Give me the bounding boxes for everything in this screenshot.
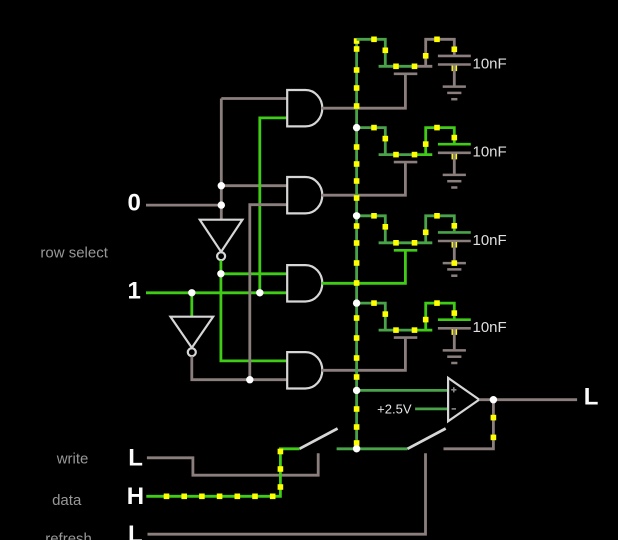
label refresh L [128,521,143,540]
inverter U6 [171,317,214,357]
label write L [128,445,143,472]
wire 0 to AND1 top input [221,97,288,100]
and-gate U1 [287,90,322,126]
label C3 value 10nF [473,232,507,249]
wire bit line to Q4 source [357,300,389,330]
svg-text:L: L [584,384,599,411]
wire Q4 drain to C4 [423,300,457,330]
wire 0 to AND2 top input [221,184,288,187]
inverter U5 [200,220,243,261]
node NOT1 junction [246,376,253,383]
ground cell 1 [443,87,466,100]
voltage source +2.5V label [377,402,412,417]
and-gate U4 [287,352,322,388]
label data H [127,483,144,510]
svg-text:row select: row select [40,245,108,262]
wire U1 output to Q1 gate [322,75,406,108]
and-gate U2 [287,177,322,213]
svg-text:+2.5V: +2.5V [377,402,412,417]
and-gate U3 [287,265,322,301]
svg-text:10nF: 10nF [473,144,507,161]
svg-text:10nF: 10nF [473,232,507,249]
wire 0 input to junction [146,204,221,207]
wire NOT0 to AND3 top input [221,272,288,275]
switch SW1 write [299,429,337,449]
node 0 junction upper [218,182,225,189]
label 1 input [128,278,141,305]
capacitor C2 [438,144,471,159]
node NOT0 junction [217,270,224,277]
label C1 value 10nF [473,55,507,72]
switch SW2 refresh [408,429,446,449]
node bit line junction cell 2 [353,124,360,131]
wire op-amp output feedback to refresh switch [444,400,497,449]
svg-text:L: L [128,445,143,472]
wire write input to SW1 control [147,453,318,475]
node bit line bottom junction [353,445,360,452]
node bit line junction cell 3 [353,212,360,219]
wire bit line to op-amp noninverting input [357,389,449,392]
label 0 input [128,190,141,217]
wire C4 to ground [453,328,456,349]
wire op-amp output to label [479,398,577,401]
label row select [40,245,108,262]
wire Q1 drain to C1 [423,37,457,67]
wire write switch to bit line to refresh switch [337,447,408,450]
wire bit line to Q3 source [357,213,389,243]
wire Q3 drain to C3 [423,213,457,243]
wire refresh input to SW2 control [148,453,426,534]
node bit line junction cell 4 [353,299,360,306]
ground cell 4 [443,350,466,363]
capacitor C1 [438,56,471,71]
label refresh [45,531,92,540]
node bit line sense junction [353,387,360,394]
wire 1 riser to AND1 bottom input [260,118,288,293]
label write [56,450,89,467]
wire NOT1 riser to AND2 bottom input [250,205,288,380]
transistor Q3 [379,240,433,250]
capacitor C3 [438,232,471,247]
wire C3 to ground [453,241,456,262]
svg-text:10nF: 10nF [473,55,507,72]
wire U2 output to Q2 gate [322,163,406,195]
wire U4 output to Q4 gate [322,339,406,371]
node 1 junction left [188,289,195,296]
capacitor C4 [438,320,471,335]
wire 0 vertical riser [220,99,223,206]
ground cell 2 [443,175,466,188]
wire data input to SW1 [146,449,299,499]
wire C1 to ground [453,65,456,86]
wire U3 output to Q3 gate [322,251,406,283]
op-amp U7 [448,378,479,421]
transistor Q2 [379,152,433,162]
wire 1 to inverter U6 input [190,293,193,317]
wire bit line [354,38,360,449]
svg-text:write: write [56,450,89,467]
wire NOT1 from U6 output [192,356,288,379]
label output L [584,384,599,411]
ground cell 3 [443,260,466,275]
wire 0 to inverter U5 input [220,205,223,220]
wire bit line to Q2 source [357,125,389,155]
svg-text:10nF: 10nF [473,319,507,336]
label data [52,492,82,509]
transistor Q1 [379,64,433,74]
label C4 value 10nF [473,319,507,336]
svg-text:0: 0 [128,190,141,217]
wire Q2 drain to C2 [423,125,457,155]
node op-amp output junction [490,396,497,403]
svg-text:data: data [52,492,82,509]
node 1 junction right [256,289,263,296]
svg-text:refresh: refresh [45,531,92,540]
transistor Q4 [379,327,433,337]
svg-text:H: H [127,483,144,510]
svg-text:L: L [128,521,143,540]
label C2 value 10nF [473,144,507,161]
wire 1 input bus [146,291,288,294]
node 0 junction lower [218,201,225,208]
wire +2.5V to op-amp inverting input [415,407,448,410]
wire NOT0 from U5 output [221,260,288,361]
wire bit line to Q1 source [357,37,389,67]
svg-text:1: 1 [128,278,141,305]
wire C2 to ground [453,153,456,174]
